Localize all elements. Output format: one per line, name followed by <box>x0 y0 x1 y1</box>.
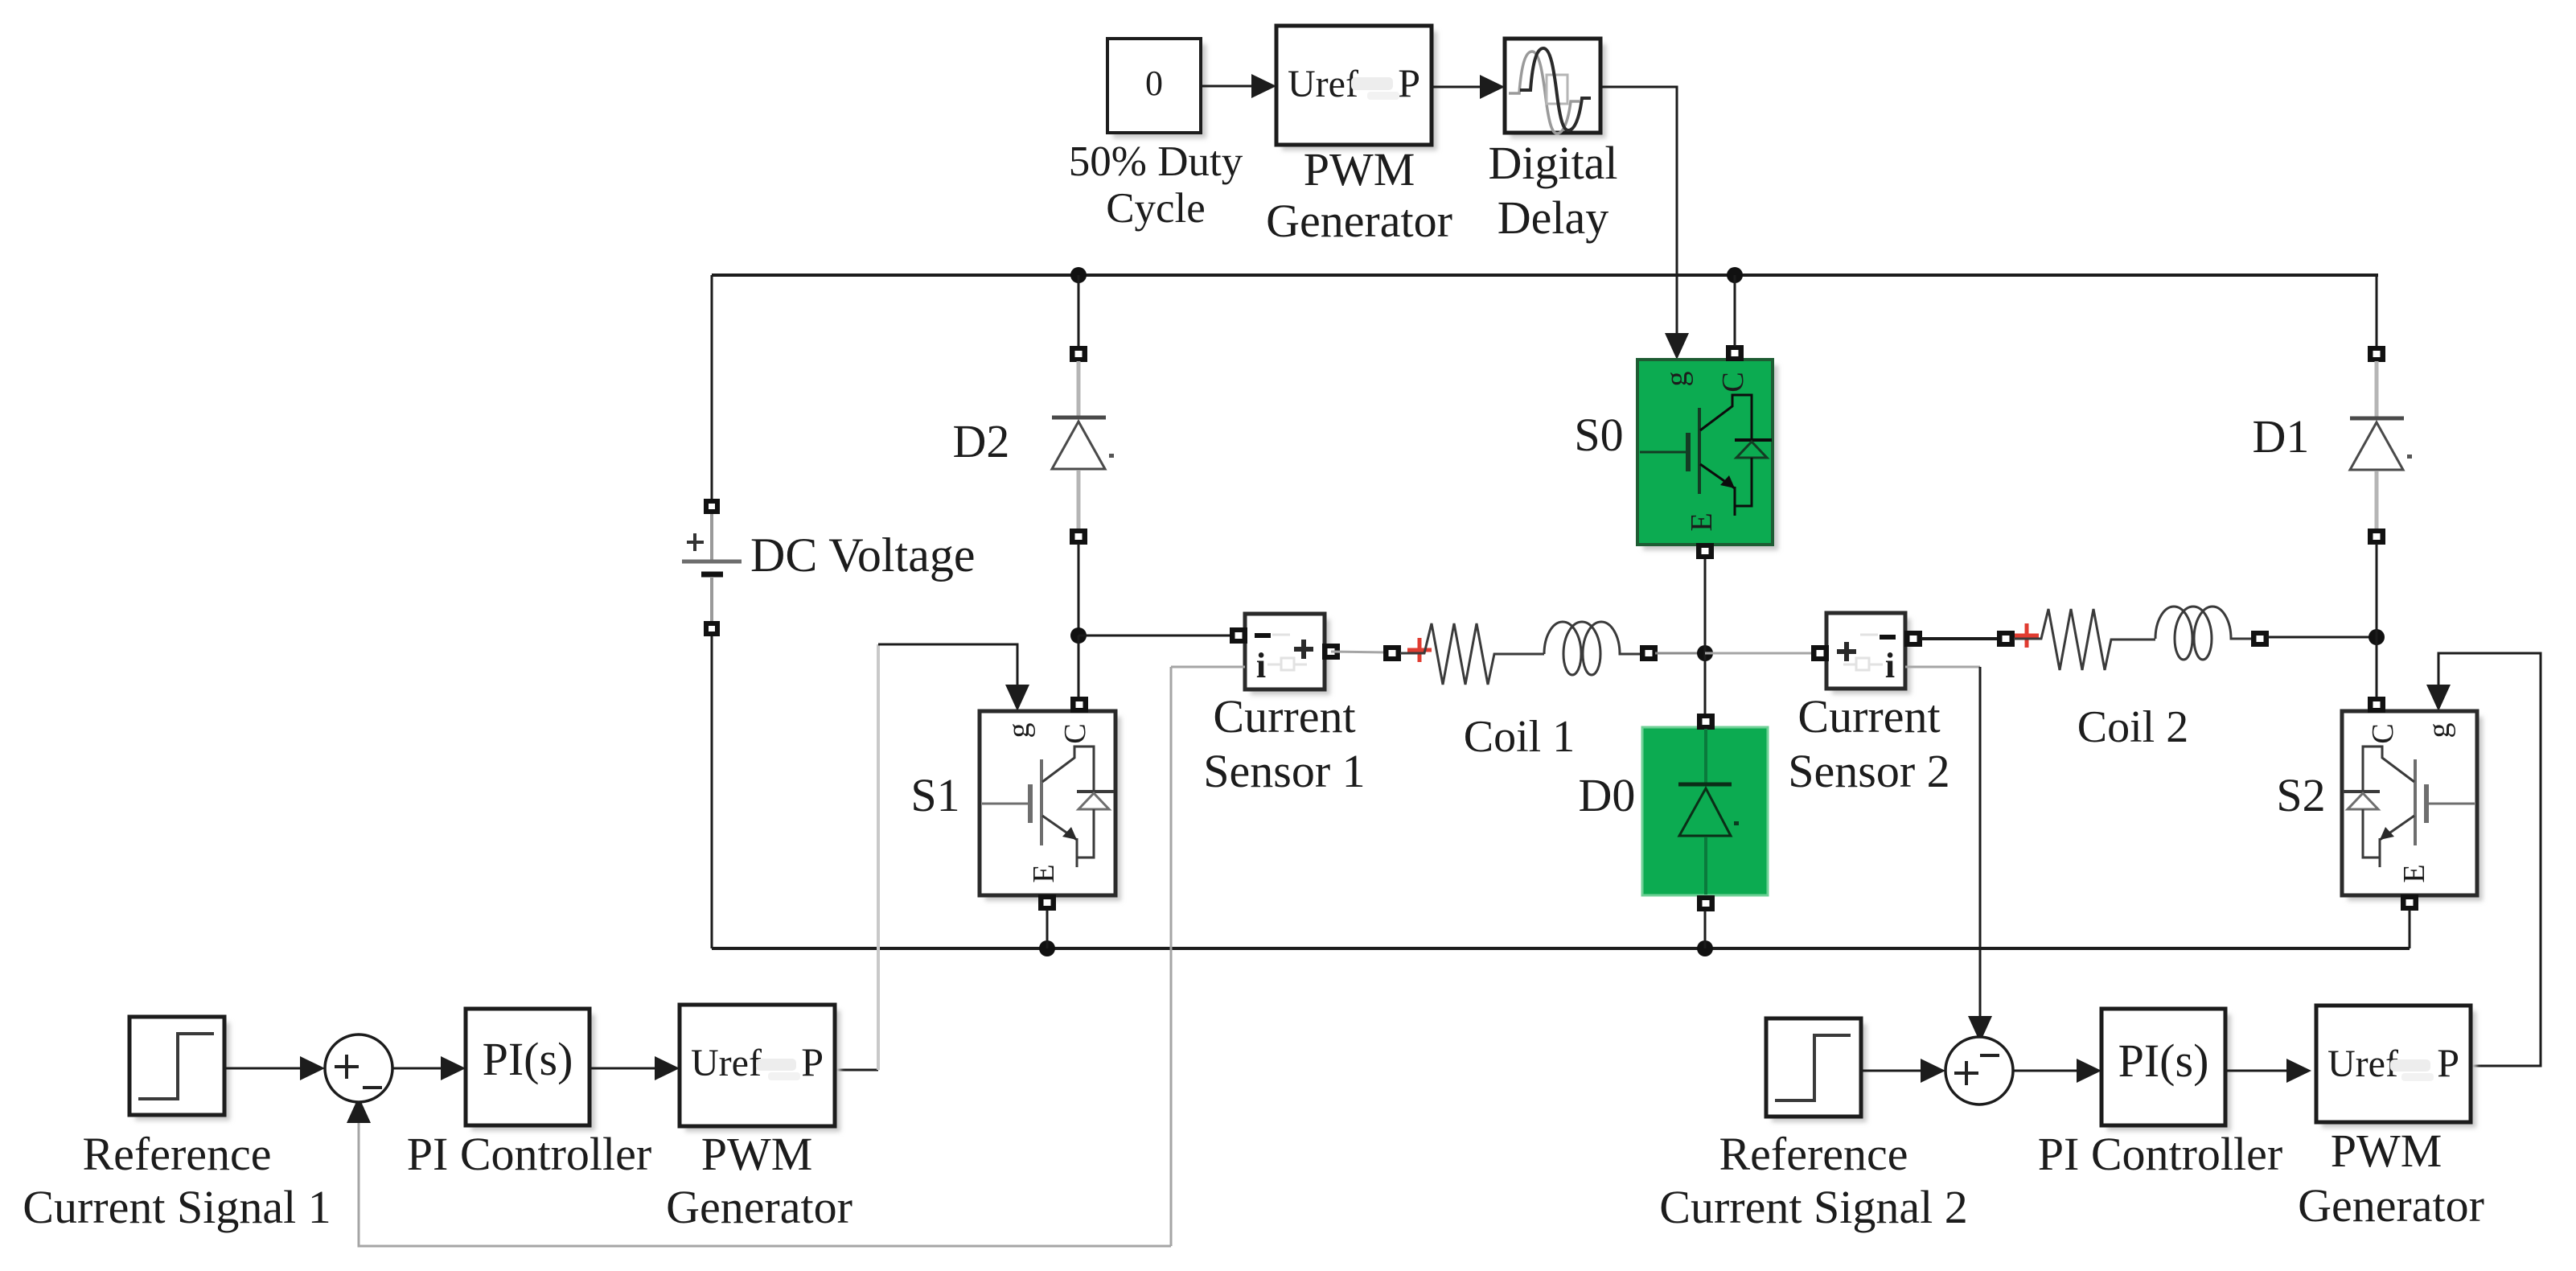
svg-text:DC Voltage: DC Voltage <box>750 529 975 582</box>
wire node B to Current Sensor 2 (gray stub) <box>1705 652 1814 655</box>
wire Digital Delay to S0 gate <box>1600 87 1689 360</box>
junction top bus / S0 collector <box>1727 267 1743 283</box>
wire S1 emitter to bottom bus <box>1046 910 1049 948</box>
PI Controller 2 <box>2101 1009 2231 1131</box>
wire step 1 to sum 1 <box>224 1056 325 1080</box>
wire bottom bus <box>712 947 2410 950</box>
junction top bus / D2 <box>1070 267 1087 283</box>
wire D2 to node A <box>1078 544 1080 635</box>
svg-text:S0: S0 <box>1574 409 1623 461</box>
svg-text:E: E <box>1685 512 1719 531</box>
diode D2 <box>1052 346 1106 545</box>
label: Digital Delay <box>1488 137 1617 244</box>
wire Coil 1 to node B <box>1655 652 1705 655</box>
wire feedback to sum 1 <box>347 1096 1171 1246</box>
label: Current Sensor 2 <box>1788 690 1949 797</box>
svg-text:D2: D2 <box>953 415 1010 467</box>
wire PI Controller 1 to PWM Generator 1 <box>590 1056 680 1080</box>
svg-text:D0: D0 <box>1579 769 1636 821</box>
svg-text:C: C <box>1058 723 1092 743</box>
svg-text:Reference: Reference <box>82 1128 271 1180</box>
step block Reference Current Signal 2 <box>1766 1018 1867 1122</box>
step block Reference Current Signal 1 <box>129 1017 230 1121</box>
label: Current Sensor 1 <box>1203 690 1365 797</box>
svg-text:Uref: Uref <box>1288 63 1358 105</box>
wire node B to S0 emitter <box>1704 558 1707 653</box>
wire S0 collector to top bus <box>1734 275 1736 347</box>
svg-text:PI Controller: PI Controller <box>407 1128 651 1180</box>
wire step 2 to sum 2 <box>1861 1059 1945 1083</box>
svg-text:PWM: PWM <box>1304 143 1415 195</box>
diode D0 (highlighted green) <box>1642 714 1768 911</box>
PWM Generator 2 <box>2316 1006 2476 1128</box>
svg-text:Digital: Digital <box>1488 137 1617 189</box>
svg-text:Reference: Reference <box>1719 1128 1908 1180</box>
svg-text:C: C <box>2366 723 2400 743</box>
junction node A (D2 / S1 / Current Sensor 1) <box>1070 627 1087 644</box>
svg-text:S1: S1 <box>910 769 959 821</box>
svg-text:Coil 1: Coil 1 <box>1464 712 1575 762</box>
Digital Delay block <box>1505 39 1606 138</box>
wire top bus left riser to DC Voltage <box>711 275 713 508</box>
wire top bus right riser to D1 <box>2376 275 2378 348</box>
wire PWM Generator 1 output riser (gray) <box>835 1069 878 1072</box>
svg-text:S2: S2 <box>2276 769 2325 821</box>
svg-text:Current: Current <box>1213 690 1355 742</box>
label: 50% Duty Cycle <box>1069 138 1243 232</box>
wire node A to S1 collector <box>1078 635 1080 698</box>
svg-text:Generator: Generator <box>2298 1179 2484 1232</box>
svg-text:Sensor 1: Sensor 1 <box>1203 745 1365 797</box>
svg-text:E: E <box>2397 864 2431 882</box>
wire sum 2 to PI Controller 2 <box>2013 1059 2101 1083</box>
svg-text:g: g <box>2422 723 2456 738</box>
svg-text:Sensor 2: Sensor 2 <box>1788 745 1949 797</box>
wire Current Sensor 2 feedback down to sum 2 <box>1968 667 1992 1043</box>
label: Reference Current Signal 1 <box>23 1128 331 1233</box>
sum junction 2 <box>1945 1037 2013 1104</box>
svg-text:PWM: PWM <box>701 1128 813 1180</box>
wire DC Voltage minus to bottom bus <box>711 636 713 948</box>
wire node B to D0 <box>1704 653 1707 715</box>
PWM Generator block (top) <box>1276 26 1437 150</box>
svg-text:Cycle: Cycle <box>1106 185 1206 232</box>
svg-text:PI Controller: PI Controller <box>2038 1128 2282 1180</box>
wire Current Sensor 2 i output (gray stub) <box>1905 666 1980 668</box>
wire D1 anode to node C <box>2376 544 2378 637</box>
junction bottom bus / S1 emitter <box>1039 940 1055 956</box>
Current Sensor 1 <box>1230 614 1340 695</box>
wire sum 1 to PI Controller 1 <box>392 1056 466 1080</box>
Coil 1 (series RL branch) <box>1383 622 1658 685</box>
wire S2 emitter to bottom bus <box>2409 910 2411 948</box>
svg-text:PI(s): PI(s) <box>2118 1034 2209 1087</box>
svg-text:Current Signal 1: Current Signal 1 <box>23 1181 331 1233</box>
DC Voltage source battery <box>682 499 742 636</box>
wire node C to S2 collector <box>2376 637 2378 698</box>
svg-text:0: 0 <box>1145 64 1163 103</box>
constant block "0" (50% Duty Cycle) <box>1107 39 1206 138</box>
wire node A to Current Sensor 1 <box>1078 635 1232 637</box>
svg-text:50% Duty: 50% Duty <box>1069 138 1243 185</box>
wire D0 anode to bottom bus <box>1704 911 1707 948</box>
svg-text:D1: D1 <box>2253 410 2310 463</box>
wire top bus <box>712 274 2378 277</box>
svg-text:Uref: Uref <box>691 1042 762 1084</box>
svg-text:P: P <box>801 1039 824 1084</box>
svg-text:Uref: Uref <box>2327 1043 2398 1085</box>
label: PWM Generator 1 <box>666 1128 853 1233</box>
svg-text:PI(s): PI(s) <box>483 1033 573 1085</box>
svg-text:Current: Current <box>1797 690 1940 742</box>
wire constant to PWM Generator (top) <box>1201 74 1276 98</box>
diode D1 <box>2350 346 2404 545</box>
label: PWM Generator 2 <box>2298 1125 2484 1232</box>
svg-text:g: g <box>1002 723 1036 738</box>
svg-text:Coil 2: Coil 2 <box>2077 702 2188 752</box>
Coil 2 (series RL branch) <box>1997 607 2269 670</box>
PI Controller 1 <box>466 1009 595 1131</box>
Current Sensor 2 <box>1811 613 1922 694</box>
svg-text:Delay: Delay <box>1498 191 1609 244</box>
svg-text:Generator: Generator <box>666 1181 853 1233</box>
wire D2 top <box>1078 275 1080 348</box>
svg-text:P: P <box>2437 1040 2459 1085</box>
wire Current Sensor 1 i output (gray stub) <box>1171 666 1245 668</box>
wire to S1 gate <box>878 644 1029 711</box>
wire PWM Generator 2 output to S2 gate <box>2426 653 2541 1066</box>
wire Current Sensor 2 plus to Coil 2 <box>1921 637 1999 640</box>
IGBT S1 <box>980 697 1121 911</box>
svg-text:C: C <box>1716 372 1750 392</box>
svg-text:Current Signal 2: Current Signal 2 <box>1659 1181 1967 1233</box>
wire Current Sensor 1 plus to Coil 1 <box>1331 652 1386 652</box>
wire PI Controller 2 to PWM Generator 2 <box>2225 1059 2311 1083</box>
svg-text:PWM: PWM <box>2331 1125 2442 1177</box>
wire PWM Generator to Digital Delay <box>1432 75 1505 99</box>
wire Coil 2 to node C <box>2266 636 2377 639</box>
svg-text:i: i <box>1885 646 1895 685</box>
svg-text:g: g <box>1660 372 1694 387</box>
svg-text:P: P <box>1398 60 1420 105</box>
junction node C (D1 / Coil 2 / S2 collector) <box>2369 629 2385 645</box>
wire Current Sensor 1 feedback down <box>1170 667 1173 1246</box>
sum junction 1 <box>325 1034 392 1102</box>
svg-text:i: i <box>1256 646 1266 685</box>
IGBT S2 (mirrored) <box>2342 697 2483 911</box>
IGBT S0 (highlighted green) <box>1637 345 1778 559</box>
junction bottom bus / D0 anode <box>1697 940 1713 956</box>
junction node B (S0 emitter / D0 / sensors) <box>1697 645 1713 661</box>
svg-text:Generator: Generator <box>1266 195 1452 247</box>
PWM Generator 1 <box>680 1005 840 1132</box>
svg-text:E: E <box>1027 864 1061 882</box>
label: Reference Current Signal 2 <box>1659 1128 1967 1233</box>
label: PWM Generator (top) <box>1266 143 1452 247</box>
